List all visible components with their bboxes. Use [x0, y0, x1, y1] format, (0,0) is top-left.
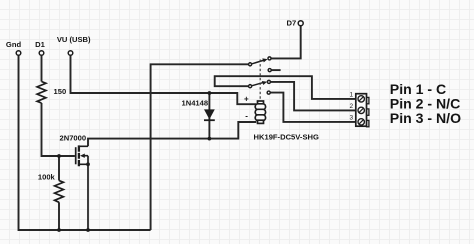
node diode bottom [208, 137, 212, 141]
node gate/100k [57, 154, 61, 158]
svg-text:Pin 3 - N/O: Pin 3 - N/O [390, 110, 461, 126]
relay actuator dashed line [259, 60, 261, 102]
svg-text:3: 3 [349, 115, 353, 122]
wire switch2 NC to pin2 [271, 82, 356, 111]
svg-text:100k: 100k [38, 172, 56, 181]
wire Gnd stem + bottom rail [19, 55, 151, 230]
node source/rail [86, 228, 90, 232]
svg-text:2N7000: 2N7000 [60, 134, 87, 143]
wire D1 stem to resistor and gate [42, 55, 75, 156]
terminal Gnd [16, 51, 21, 56]
node mosfet source [86, 162, 90, 166]
svg-text:VU (USB): VU (USB) [57, 35, 91, 44]
wire mid vertical to switch1 common [151, 64, 249, 230]
wire diode branch [208, 93, 210, 139]
resistor R2 100k [55, 181, 64, 203]
resistor R1 150 [37, 82, 46, 104]
wire switch2 NO to pin3 [271, 93, 356, 122]
terminal VU (USB) [68, 51, 73, 56]
node diode top [208, 91, 212, 95]
diode D2 1N4148 [204, 109, 215, 120]
wire 100k branch [58, 156, 60, 230]
wire switch1 NC to D7 [271, 26, 301, 59]
svg-text:HK19F-DC5V-SHG: HK19F-DC5V-SHG [254, 132, 319, 141]
svg-text:150: 150 [54, 87, 67, 96]
pin 1 screw [358, 96, 364, 102]
pin 3 screw [358, 119, 364, 125]
relay coil L1 [255, 101, 265, 123]
wire VU to relay coil + [71, 55, 257, 104]
wire mosfet drain to coil - [88, 122, 256, 146]
pin 2 screw [358, 107, 364, 113]
transistor Q1 2N7000 [76, 145, 88, 230]
wire switch2 common to pin1 [215, 76, 356, 99]
svg-text:Gnd: Gnd [6, 40, 22, 49]
svg-text:2: 2 [349, 103, 353, 110]
wire switch1 NO stub [272, 69, 281, 71]
node 100k/rail [57, 228, 61, 232]
terminal D7 [298, 21, 303, 26]
svg-text:D7: D7 [286, 19, 296, 28]
relay switch SW2 (bottom contact set) [249, 80, 271, 94]
junction dots [57, 91, 211, 232]
svg-text:+: + [244, 94, 249, 103]
svg-text:-: - [245, 112, 248, 121]
terminal D1 [39, 51, 44, 56]
relay switch SW1 (top contact set) [249, 57, 272, 72]
svg-text:D1: D1 [35, 40, 45, 49]
svg-text:1N4148: 1N4148 [182, 98, 209, 107]
svg-text:1: 1 [349, 92, 353, 99]
connector J1 screw terminal [356, 94, 369, 127]
